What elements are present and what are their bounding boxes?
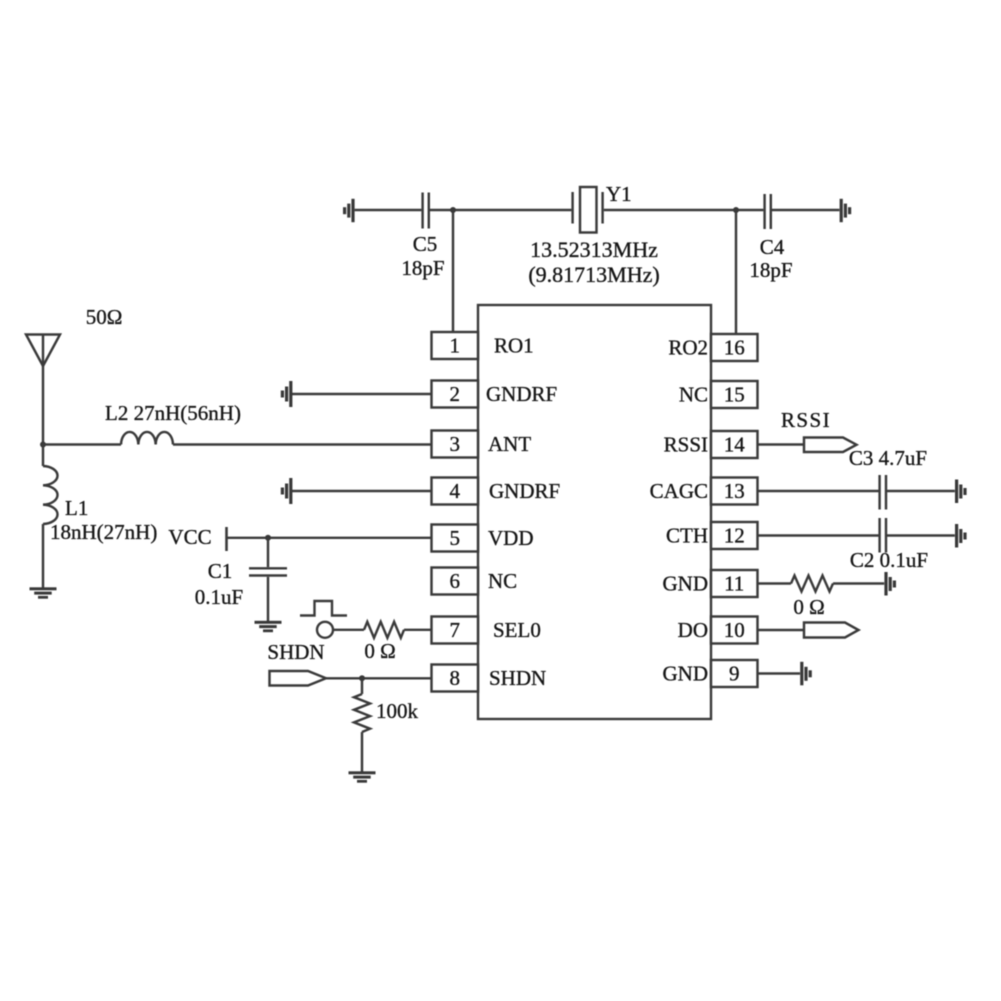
- pin 16 box: [711, 334, 758, 361]
- ground sideways-right (C2): [955, 524, 967, 548]
- svg-text:2: 2: [449, 382, 460, 406]
- wire pin 13 to C3: [758, 490, 880, 492]
- svg-text:6: 6: [449, 569, 460, 593]
- svg-text:NC: NC: [679, 383, 708, 407]
- svg-text:0 Ω: 0 Ω: [793, 595, 824, 619]
- crystal Y1: [571, 192, 573, 224]
- pin 4 box: [432, 478, 479, 505]
- svg-text:L2 27nH(56nH): L2 27nH(56nH): [105, 401, 241, 425]
- svg-text:GNDRF: GNDRF: [489, 479, 560, 503]
- wire crystal-left: [355, 209, 422, 211]
- pin 2 box: [432, 381, 479, 408]
- svg-text:14: 14: [724, 433, 746, 457]
- RSSI flag: [804, 438, 857, 453]
- wire pin 2 to ground: [292, 393, 432, 395]
- inductor L2: [121, 432, 173, 445]
- wire circle to resistor: [333, 629, 364, 631]
- svg-text:0 Ω: 0 Ω: [364, 639, 395, 663]
- wire L1 to ground: [42, 524, 44, 588]
- ground (100k): [349, 771, 376, 782]
- svg-text:RSSI: RSSI: [781, 408, 831, 432]
- capacitor C4: [763, 194, 765, 229]
- svg-text:1: 1: [449, 334, 460, 358]
- svg-text:C4: C4: [760, 235, 785, 259]
- pin 9 box: [711, 660, 758, 687]
- node junction pin1 drop: [450, 207, 456, 213]
- svg-text:0.1uF: 0.1uF: [195, 585, 243, 609]
- svg-text:NC: NC: [488, 569, 517, 593]
- wire pin 10 to DO flag: [758, 629, 805, 631]
- wire vertical to pin 1: [452, 210, 454, 332]
- svg-text:12: 12: [724, 524, 745, 548]
- wire VCC to pin 5: [228, 537, 432, 539]
- svg-text:CAGC: CAGC: [650, 479, 708, 503]
- svg-text:CTH: CTH: [666, 524, 708, 548]
- wire pin 4 to ground: [292, 490, 432, 492]
- pin 15 box: [711, 381, 758, 408]
- ground sideways-right (pin 11): [884, 572, 896, 596]
- svg-text:DO: DO: [678, 618, 708, 642]
- svg-text:ANT: ANT: [488, 432, 531, 456]
- IC U1 body: [478, 305, 711, 719]
- wire vertical to pin 16: [735, 210, 737, 334]
- svg-text:7: 7: [449, 618, 460, 642]
- svg-text:11: 11: [724, 572, 744, 596]
- VCC terminal tick: [225, 527, 228, 551]
- svg-text:18pF: 18pF: [749, 258, 792, 282]
- wire C5 to crystal: [430, 209, 571, 211]
- wire L2 to pin 3: [173, 443, 432, 445]
- capacitor C1: [267, 538, 269, 567]
- node junction 100k: [359, 675, 365, 681]
- svg-text:SHDN: SHDN: [267, 640, 324, 664]
- wire crystal to C4: [604, 209, 764, 211]
- svg-text:50Ω: 50Ω: [86, 305, 123, 329]
- pin 6 box: [432, 568, 479, 595]
- svg-text:GNDRF: GNDRF: [486, 382, 557, 406]
- DO output flag: [804, 623, 859, 638]
- node junction pin16 drop: [733, 207, 739, 213]
- terminal circle SEL0: [317, 622, 333, 638]
- resistor R 100k: [361, 678, 363, 694]
- svg-text:C2 0.1uF: C2 0.1uF: [850, 548, 928, 572]
- svg-text:18nH(27nH): 18nH(27nH): [50, 520, 157, 544]
- antenna: [26, 335, 60, 367]
- pin 14 box: [711, 431, 758, 458]
- svg-text:GND: GND: [663, 572, 709, 596]
- ground (C1): [255, 621, 282, 632]
- svg-text:8: 8: [449, 666, 460, 690]
- svg-text:VDD: VDD: [488, 526, 534, 550]
- pin 12 box: [711, 522, 758, 549]
- wire SHDN to pin 8: [326, 677, 432, 679]
- ground sideways-right (pin 9): [800, 662, 812, 686]
- svg-text:4: 4: [449, 479, 460, 503]
- svg-text:(9.81713MHz): (9.81713MHz): [528, 262, 659, 287]
- resistor R 0ohm (GND pin 11): [791, 576, 833, 592]
- ground sideways-right at end of crystal wire: [840, 199, 852, 222]
- svg-text:VCC: VCC: [168, 525, 211, 549]
- resistor R 0ohm (SEL0): [364, 622, 404, 638]
- ground sideways-right (C3): [955, 480, 967, 504]
- ground sideways-left (pin 2 GNDRF): [281, 381, 293, 407]
- svg-text:10: 10: [724, 618, 745, 642]
- svg-text:Y1: Y1: [606, 182, 632, 206]
- wire antenna down: [42, 366, 44, 445]
- svg-text:GND: GND: [663, 662, 709, 686]
- pin 5 box: [432, 525, 479, 552]
- pulse waveform symbol: [300, 601, 347, 616]
- wire pin 9 to ground: [758, 672, 801, 674]
- svg-text:SHDN: SHDN: [489, 666, 546, 690]
- pin 10 box: [711, 617, 758, 644]
- node junction C1: [265, 535, 271, 541]
- pin 13 box: [711, 478, 758, 505]
- capacitor C3: [878, 475, 880, 510]
- node junction ANT: [40, 442, 46, 448]
- svg-text:C5: C5: [413, 232, 438, 256]
- capacitor C2: [878, 518, 880, 553]
- capacitor C5: [421, 193, 423, 229]
- wire C3 to ground: [887, 490, 955, 492]
- pin 11 box: [711, 570, 758, 597]
- svg-text:15: 15: [724, 383, 745, 407]
- svg-text:13: 13: [724, 479, 745, 503]
- wire pin 12 to C2: [758, 534, 880, 536]
- svg-text:RSSI: RSSI: [664, 433, 708, 457]
- inductor L1: [42, 445, 44, 467]
- svg-text:L1: L1: [65, 496, 88, 520]
- svg-text:5: 5: [449, 526, 460, 550]
- wire pin 14 to RSSI flag: [758, 443, 805, 445]
- pin 1 box: [432, 332, 479, 359]
- svg-text:C1: C1: [208, 559, 233, 583]
- svg-text:100k: 100k: [376, 699, 419, 723]
- wire C4 to right ground: [772, 209, 839, 211]
- svg-text:SEL0: SEL0: [493, 618, 541, 642]
- wire C2 to ground: [887, 534, 955, 536]
- svg-text:RO1: RO1: [494, 334, 534, 358]
- svg-text:9: 9: [729, 662, 740, 686]
- svg-text:RO2: RO2: [668, 336, 708, 360]
- ground sideways-left (pin 4 GNDRF): [281, 478, 293, 504]
- ground sideways-left at end of crystal wire: [343, 199, 355, 222]
- svg-text:3: 3: [449, 432, 460, 456]
- svg-text:18pF: 18pF: [401, 256, 444, 280]
- svg-text:16: 16: [724, 336, 745, 360]
- pin 8 box: [432, 665, 479, 692]
- wire resistor to ground: [833, 582, 884, 584]
- pin 7 box: [432, 617, 479, 644]
- SHDN flag: [270, 671, 327, 686]
- ground (antenna branch): [30, 587, 57, 598]
- svg-text:C3 4.7uF: C3 4.7uF: [849, 446, 927, 470]
- svg-text:13.52313MHz: 13.52313MHz: [530, 237, 658, 262]
- wire pin 11 to resistor: [758, 582, 792, 584]
- pin 3 box: [432, 431, 479, 458]
- wire ANT left segment: [43, 443, 121, 445]
- wire resistor to pin 7: [404, 629, 432, 631]
